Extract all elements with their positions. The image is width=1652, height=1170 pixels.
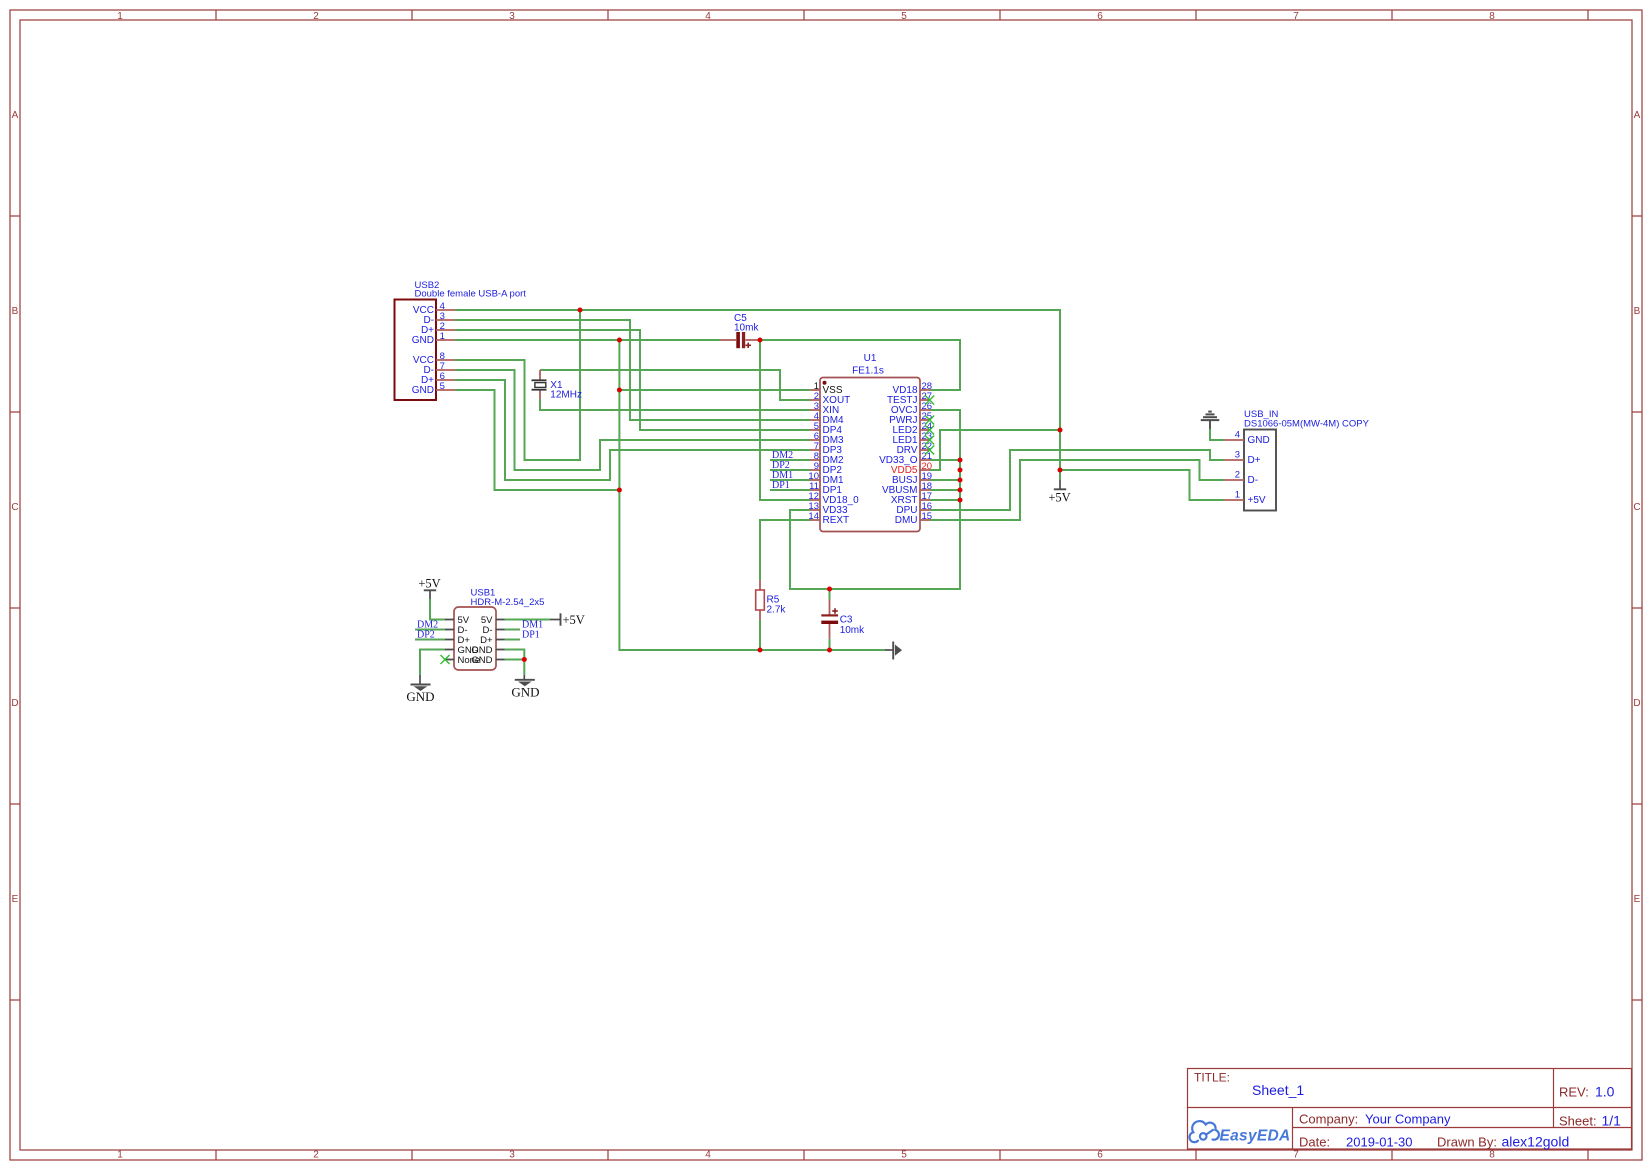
svg-text:C: C bbox=[11, 502, 18, 513]
svg-text:GND: GND bbox=[412, 335, 434, 346]
wire U1 VDD5 pin20 to +5V net bbox=[930, 430, 1060, 470]
svg-text:+5V: +5V bbox=[1248, 495, 1266, 506]
wire U1 VD33 pin13 to 3V3 bus and OVCJ pin26 bbox=[790, 410, 960, 589]
capacitor C3 10mk polarized bbox=[821, 600, 865, 639]
connector USB2 Double female USB-A port bbox=[395, 280, 527, 400]
ground symbol below USB1 left bbox=[406, 675, 434, 704]
junction 3V3 bus at pin20 row bbox=[958, 468, 963, 473]
svg-text:Sheet:: Sheet: bbox=[1559, 1114, 1597, 1129]
power flag +5V near U1 bbox=[1048, 480, 1070, 505]
ground symbol below USB1 right bbox=[511, 675, 539, 700]
svg-text:C: C bbox=[1633, 502, 1640, 513]
svg-text:DP1: DP1 bbox=[772, 480, 790, 491]
wire USB2 pin2 D+ to U1 DP4 bbox=[455, 330, 810, 430]
svg-text:GND: GND bbox=[511, 685, 539, 700]
wire VCC/+5V net: USB2 pin4 to +5V symbol bbox=[455, 310, 1060, 480]
svg-text:7: 7 bbox=[1293, 11, 1299, 22]
svg-text:D: D bbox=[11, 698, 18, 709]
svg-text:alex12gold: alex12gold bbox=[1502, 1134, 1570, 1150]
svg-text:C3: C3 bbox=[840, 615, 853, 626]
junction GND at USB2 pin5 tap bbox=[617, 488, 622, 493]
junction +5V at VDD5 wire bbox=[1058, 428, 1063, 433]
svg-text:5: 5 bbox=[901, 11, 907, 22]
wire net DM2 stub USB1 left bbox=[415, 629, 445, 631]
junction GND at R5 bottom bbox=[758, 648, 763, 653]
svg-text:3: 3 bbox=[509, 11, 515, 22]
svg-text:GND: GND bbox=[412, 385, 434, 396]
svg-text:1: 1 bbox=[1235, 489, 1240, 500]
svg-text:8: 8 bbox=[1489, 11, 1495, 22]
svg-text:DMU: DMU bbox=[895, 515, 918, 526]
svg-text:4: 4 bbox=[1235, 429, 1240, 440]
svg-text:D+: D+ bbox=[1248, 455, 1261, 466]
svg-text:Your Company: Your Company bbox=[1365, 1112, 1451, 1127]
svg-text:B: B bbox=[1634, 306, 1641, 317]
wire USB2 pin7 D- to U1 DM3 bbox=[455, 370, 810, 470]
svg-text:FE1.1s: FE1.1s bbox=[852, 366, 884, 377]
svg-text:2: 2 bbox=[313, 11, 319, 22]
wire USB2 pin3 D- to U1 DM4 bbox=[455, 320, 810, 420]
svg-text:5: 5 bbox=[901, 1150, 907, 1161]
frame row letters bbox=[11, 110, 1640, 905]
junction VCC net at USB2 pin4 row bbox=[578, 308, 583, 313]
svg-text:GND: GND bbox=[406, 689, 434, 704]
junction +5V at USB_IN feed bbox=[1058, 468, 1063, 473]
svg-text:2: 2 bbox=[313, 1150, 319, 1161]
svg-text:TITLE:: TITLE: bbox=[1194, 1071, 1230, 1085]
junction 3V3 bus at pin19 bbox=[958, 478, 963, 483]
wire U1 pin19 BUSJ tap bbox=[930, 479, 960, 481]
wire GND to U1 VSS pin1 bbox=[619, 389, 810, 391]
IC U1 FE1.1s bbox=[808, 353, 932, 532]
svg-text:6: 6 bbox=[1097, 11, 1103, 22]
svg-text:4: 4 bbox=[705, 1150, 711, 1161]
wire USB1 right GND pins to ground symbol bbox=[505, 650, 525, 660]
junction GND at VSS row bbox=[617, 388, 622, 393]
svg-text:E: E bbox=[12, 894, 19, 905]
svg-text:DP2: DP2 bbox=[417, 629, 435, 640]
wire U1 pin17 XRST tap bbox=[930, 499, 960, 501]
svg-text:B: B bbox=[12, 306, 19, 317]
wire C5 node down to U1 VD18_0 pin12 bbox=[760, 340, 810, 500]
svg-text:1: 1 bbox=[117, 11, 123, 22]
connector USB1 HDR-M-2.54_2x5 bbox=[445, 588, 544, 671]
svg-text:12MHz: 12MHz bbox=[550, 390, 582, 401]
svg-text:1: 1 bbox=[117, 1150, 123, 1161]
wire net DP1 stub USB1 right bbox=[505, 639, 521, 641]
wire U1 REXT pin14 to R5 bbox=[760, 520, 810, 580]
wire C3 top bbox=[829, 589, 831, 600]
wire net DM1 stub at U1 pin10 bbox=[770, 479, 810, 481]
svg-text:REV:: REV: bbox=[1559, 1085, 1589, 1100]
wire U1 pin18 VBUSM tap bbox=[930, 489, 960, 491]
wire U1 DPU pin16 to USB_IN D+ bbox=[930, 450, 1224, 510]
power flag +5V right of USB1 bbox=[550, 613, 585, 627]
svg-text:3: 3 bbox=[509, 1150, 515, 1161]
svg-text:15: 15 bbox=[922, 511, 933, 522]
wire net DP1 stub at U1 pin11 bbox=[770, 489, 810, 491]
wire U1 pin21 VD33_O tap bbox=[930, 459, 960, 461]
power flag +5V above USB1 bbox=[418, 577, 440, 600]
svg-text:2019-01-30: 2019-01-30 bbox=[1346, 1135, 1413, 1150]
svg-text:U1: U1 bbox=[864, 353, 877, 364]
earth ground symbol above USB_IN bbox=[1201, 412, 1220, 429]
junction GND net at C5 row bbox=[617, 338, 622, 343]
svg-text:EasyEDA: EasyEDA bbox=[1220, 1127, 1291, 1144]
svg-text:A: A bbox=[12, 110, 19, 121]
no-connect X mark USB1 pin None bbox=[441, 655, 450, 664]
wire X1 bottom to U1 XIN pin3 bbox=[540, 399, 810, 410]
svg-text:7: 7 bbox=[1293, 1150, 1299, 1161]
wire C3 bottom to GND run bbox=[829, 639, 831, 650]
junction 3V3 bus at pin21 bbox=[958, 458, 963, 463]
junction C5 output node bbox=[758, 338, 763, 343]
svg-text:E: E bbox=[1634, 894, 1641, 905]
svg-text:Company:: Company: bbox=[1299, 1112, 1358, 1127]
svg-text:1.0: 1.0 bbox=[1595, 1084, 1615, 1100]
junction GND at C3 bottom bbox=[827, 648, 832, 653]
resistor R5 2.7k bbox=[756, 580, 787, 620]
svg-text:D: D bbox=[1633, 698, 1640, 709]
svg-text:5: 5 bbox=[440, 381, 445, 392]
no-connect X marks U1 pins 27 25 24 23 22 bbox=[925, 396, 934, 405]
wire USB1 left GND to ground symbol bbox=[420, 650, 445, 676]
svg-text:GND: GND bbox=[1248, 435, 1270, 446]
wire C5 right to U1 VD18 pin28 bbox=[760, 340, 960, 390]
svg-text:Date:: Date: bbox=[1299, 1135, 1330, 1150]
junction C3 top node bbox=[827, 587, 832, 592]
wire X1 top to U1 XOUT pin2 bbox=[540, 370, 810, 400]
wire USB1 right 5V to +5V symbol bbox=[505, 619, 551, 621]
svg-text:A: A bbox=[1634, 110, 1641, 121]
svg-text:6: 6 bbox=[1097, 1150, 1103, 1161]
svg-text:GND: GND bbox=[471, 655, 492, 666]
svg-text:+5V: +5V bbox=[1048, 491, 1070, 505]
junction 3V3 bus at pin17 bbox=[958, 498, 963, 503]
wire GND bus vertical and bottom run to ground bbox=[619, 340, 884, 650]
wire USB2 pin6 D+ to U1 DP3 bbox=[455, 380, 810, 480]
wire U1 DMU pin15 to USB_IN D- bbox=[930, 460, 1224, 520]
wire net DP2 stub at U1 pin9 bbox=[770, 469, 810, 471]
svg-text:HDR-M-2.54_2x5: HDR-M-2.54_2x5 bbox=[471, 597, 545, 608]
wire USB2 pin8 VCC riser joining +5V net bbox=[455, 310, 580, 460]
svg-text:4: 4 bbox=[705, 11, 711, 22]
wire +5V net to USB_IN pin1 bbox=[1060, 470, 1224, 500]
junction 3V3 bus at pin18 bbox=[958, 488, 963, 493]
wire USB2 pin1 GND row to C5 left bbox=[455, 339, 720, 341]
svg-text:1/1: 1/1 bbox=[1602, 1113, 1622, 1129]
svg-text:+5V: +5V bbox=[563, 613, 585, 627]
wire net DM2 stub at U1 pin8 bbox=[770, 459, 810, 461]
svg-text:2: 2 bbox=[1235, 469, 1240, 480]
svg-text:3: 3 bbox=[1235, 449, 1240, 460]
svg-text:10mk: 10mk bbox=[734, 323, 759, 334]
svg-text:8: 8 bbox=[1489, 1150, 1495, 1161]
svg-text:Drawn By:: Drawn By: bbox=[1437, 1135, 1497, 1150]
wire net DM1 stub USB1 right bbox=[505, 629, 521, 631]
svg-text:1: 1 bbox=[440, 331, 445, 342]
junction USB1 GND pins bbox=[522, 657, 527, 662]
wire net DP2 stub USB1 left bbox=[415, 639, 445, 641]
EasyEDA logo bbox=[1189, 1121, 1218, 1142]
svg-text:+5V: +5V bbox=[418, 577, 440, 591]
wire USB2 pin5 GND tap bbox=[455, 390, 619, 490]
capacitor C5 10mk polarized bbox=[720, 313, 760, 348]
wire USB_IN GND pin4 to earth bbox=[1210, 429, 1224, 440]
svg-text:DP1: DP1 bbox=[522, 629, 540, 640]
svg-text:Sheet_1: Sheet_1 bbox=[1252, 1082, 1304, 1098]
title block bbox=[1188, 1069, 1632, 1150]
svg-text:2.7k: 2.7k bbox=[767, 605, 787, 616]
wire +5V to USB1 pin 5V left bbox=[430, 599, 445, 620]
svg-text:DS1066-05M(MW-4M) COPY: DS1066-05M(MW-4M) COPY bbox=[1244, 419, 1370, 430]
ground symbol right of C3 bbox=[885, 642, 902, 660]
svg-text:D-: D- bbox=[1248, 475, 1259, 486]
svg-text:10mk: 10mk bbox=[840, 625, 865, 636]
svg-text:Double female USB-A port: Double female USB-A port bbox=[415, 289, 527, 300]
svg-text:REXT: REXT bbox=[823, 515, 850, 526]
wire R5 bottom to GND run bbox=[759, 620, 761, 650]
svg-text:14: 14 bbox=[808, 511, 819, 522]
connector USB_IN DS1066-05M(MW-4M) COPY bbox=[1224, 409, 1370, 511]
crystal X1 12MHz bbox=[532, 370, 582, 401]
